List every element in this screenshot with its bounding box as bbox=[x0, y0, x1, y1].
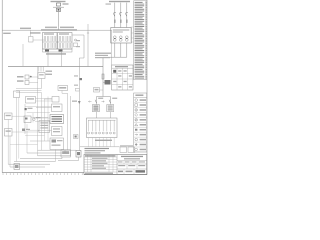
relay riser x48 bbox=[47, 97, 49, 142]
side tap arrow right bbox=[102, 101, 105, 103]
label text above switchgear right bbox=[60, 27, 74, 29]
wire bbox=[100, 89, 104, 91]
panel box P3 with gray bars bbox=[50, 115, 64, 124]
legend symbol 10 bbox=[135, 143, 138, 146]
riser from JB1 bbox=[16, 98, 18, 162]
disconnect switch blades bbox=[113, 12, 128, 16]
breaker CB-2 dark bbox=[59, 50, 63, 52]
sheet border right bbox=[146, 0, 148, 175]
schedule cell marks bbox=[118, 70, 121, 71]
legend symbol 4 bbox=[135, 113, 138, 116]
legend header text bbox=[135, 95, 143, 96]
main bus 480V bbox=[8, 65, 103, 67]
wire bbox=[79, 57, 84, 59]
transformer T1 enclosure bbox=[111, 28, 132, 44]
drawing number cells bbox=[123, 169, 125, 175]
relay contact cluster 1 dark dot bbox=[25, 108, 27, 110]
legend symbol 9 bbox=[135, 138, 138, 141]
side tap arrow left bbox=[89, 101, 92, 103]
schedule dark cell bbox=[113, 70, 116, 73]
auto transfer box bbox=[39, 121, 50, 133]
relay contact cluster 3 bbox=[22, 129, 25, 132]
riser x33 bbox=[32, 113, 34, 123]
cluster 1 label bbox=[28, 108, 33, 109]
notes text small bbox=[3, 33, 11, 34]
wire bbox=[36, 98, 53, 100]
title block sub cells row1 bbox=[123, 161, 125, 164]
legend symbol 2 bbox=[135, 104, 138, 106]
mcc branch drops bbox=[88, 120, 90, 131]
wire bbox=[12, 131, 39, 133]
revision row entries bbox=[92, 158, 108, 159]
wire bbox=[61, 157, 63, 159]
cluster 3 label bbox=[26, 129, 30, 130]
mcc label text bbox=[95, 140, 112, 141]
mcc feeder wire 1 bbox=[96, 97, 98, 105]
relay tap dark blob bbox=[80, 78, 82, 80]
terminal box TB1 bbox=[14, 164, 20, 170]
legend text bbox=[140, 109, 146, 111]
wire bbox=[35, 121, 50, 123]
wire incoming service drop bbox=[58, 12, 60, 31]
switchgear busbar hatching bbox=[44, 36, 70, 48]
switchgear lineup label bbox=[41, 29, 77, 30]
wire from divider to bus bbox=[22, 44, 24, 66]
secondary wires down bbox=[114, 43, 116, 57]
panel box P4 bbox=[52, 127, 63, 136]
bus label text bbox=[46, 53, 66, 55]
wire bbox=[30, 140, 50, 142]
label text above switchgear left bbox=[20, 28, 31, 30]
meter relay K2 bbox=[25, 81, 29, 85]
wire bbox=[38, 130, 52, 132]
wire bbox=[61, 91, 63, 94]
riser bbox=[26, 124, 28, 153]
wire starter1 to mcc bbox=[96, 112, 98, 118]
legend symbol 11 bbox=[135, 149, 138, 151]
disconnect blade feeder2 bbox=[109, 100, 110, 103]
wire bbox=[25, 106, 52, 108]
edge box E1 bbox=[5, 113, 13, 120]
legend text bbox=[140, 104, 146, 106]
stamp label text bbox=[120, 145, 133, 146]
junction device box bbox=[61, 150, 71, 157]
relay cluster vertical bbox=[24, 104, 26, 134]
switchgear bottom cable strip bbox=[43, 49, 73, 52]
disconnect blade feeder1 bbox=[95, 100, 96, 103]
wire bbox=[33, 39, 45, 41]
control riser 4 bbox=[70, 96, 72, 156]
fuse cutouts bbox=[114, 20, 127, 23]
wire bbox=[34, 117, 50, 119]
switchgear section titles bbox=[44, 33, 54, 34]
revision table rows bbox=[84, 156, 117, 158]
motor circles bbox=[88, 132, 90, 134]
title block frame bbox=[84, 155, 147, 175]
legend text bbox=[140, 144, 146, 146]
primary feeder wire 2 bbox=[120, 3, 122, 28]
potential transformer PT1 bbox=[57, 8, 61, 11]
bottom route wire 6 bbox=[8, 163, 50, 165]
riser from P5 bbox=[55, 150, 57, 162]
panel box P2 bbox=[52, 104, 63, 112]
wire bbox=[27, 112, 50, 114]
sheet border left bbox=[1, 0, 3, 173]
primary feeder wire 1 bbox=[114, 3, 116, 28]
title block sub cells row2 bbox=[126, 164, 128, 169]
legend symbol 7 bbox=[135, 129, 137, 131]
breaker CB-1 dark bbox=[45, 50, 49, 52]
control riser 3 bbox=[67, 93, 69, 150]
note text top bbox=[51, 1, 66, 2]
legend symbol 6 bbox=[135, 123, 138, 125]
wire bbox=[53, 6, 64, 8]
transformer winding symbols bbox=[113, 36, 116, 39]
legend text bbox=[140, 134, 146, 136]
equipment schedule table bbox=[112, 65, 133, 90]
legend text bbox=[140, 99, 146, 101]
utility meter M1 bbox=[57, 3, 61, 6]
panel note text bbox=[72, 101, 77, 102]
wire bbox=[58, 157, 79, 161]
feeder1 label bbox=[98, 98, 103, 99]
primary feeder wire 3 bbox=[126, 3, 128, 28]
transformer T1 label text bbox=[109, 1, 130, 2]
edge box E2 bbox=[5, 129, 13, 137]
sheet border bottom bbox=[2, 172, 84, 174]
riser from JB1 b bbox=[18, 98, 20, 159]
fuse FU5 bbox=[102, 74, 104, 79]
aux box bbox=[74, 43, 78, 47]
schedule header text bbox=[115, 66, 128, 67]
revision table columns bbox=[87, 155, 89, 173]
wire bbox=[41, 79, 43, 89]
control riser 2 bbox=[41, 93, 43, 151]
relay label texts bbox=[17, 76, 24, 78]
surge arrester SA1 bbox=[75, 39, 77, 41]
parts list right column divider bbox=[144, 1, 146, 80]
legend symbol 1 bbox=[135, 99, 138, 102]
feeder wire F3 bbox=[78, 58, 80, 151]
starter unit 2 with heater bars bbox=[107, 105, 114, 112]
wire bbox=[83, 35, 85, 58]
label text bbox=[63, 3, 69, 5]
device tag box bbox=[94, 88, 100, 93]
wire bbox=[31, 116, 48, 118]
legend symbol 8 bbox=[135, 134, 138, 136]
meter relay K1 bbox=[25, 75, 29, 79]
wire bbox=[64, 150, 66, 154]
mcc under-box feeder wires bbox=[88, 138, 90, 147]
schedule row lines bbox=[112, 73, 133, 75]
bottom route wire 5 bbox=[14, 160, 56, 162]
legend text bbox=[140, 149, 146, 151]
labeled box upper bbox=[26, 97, 36, 104]
wire drop left bbox=[30, 30, 32, 36]
switchgear internal divider bbox=[43, 41, 73, 43]
legend text bbox=[140, 119, 146, 121]
feeder label texts bbox=[74, 75, 78, 76]
junction box JB1 bbox=[14, 91, 20, 98]
mcc feeder wire 2 bbox=[110, 97, 112, 105]
wire bbox=[103, 81, 105, 83]
bottom route wire 7 bbox=[10, 166, 45, 168]
mcc feeder bus bbox=[97, 96, 111, 98]
ruler tick marks below bottom border bbox=[3, 173, 82, 175]
control wiring fan bbox=[16, 88, 42, 90]
feeder device box bbox=[76, 88, 80, 91]
revision header text bbox=[85, 155, 116, 156]
wire vertical right of switchgear bbox=[87, 24, 89, 66]
drawing number text bbox=[118, 171, 123, 173]
riser from E1 bbox=[7, 120, 9, 165]
small label near divider bbox=[76, 40, 80, 41]
riser from E2 bbox=[9, 136, 11, 167]
dimension bracket left of table bbox=[130, 27, 132, 42]
wire starter2 to mcc bbox=[110, 112, 112, 118]
bus tap drops bbox=[38, 66, 40, 71]
legend text bbox=[140, 124, 146, 126]
schedule column lines bbox=[116, 68, 118, 90]
wire lower left a bbox=[10, 144, 38, 146]
legend rows bbox=[134, 102, 147, 104]
indicator lamp bbox=[30, 76, 32, 78]
cable termination arrow bbox=[78, 101, 81, 104]
wire bbox=[29, 82, 38, 84]
wire bbox=[29, 76, 38, 78]
feeder riser wire bbox=[102, 57, 104, 96]
transformer nameplate text bbox=[113, 29, 130, 30]
approval stamp box 2 bbox=[128, 147, 135, 153]
legend symbol 5 bbox=[135, 119, 138, 122]
metering label text bbox=[46, 71, 53, 72]
feeder tag box bbox=[58, 86, 68, 91]
wire lower left b bbox=[25, 135, 45, 137]
secondary route wire bbox=[103, 56, 127, 58]
motor control center MCC-1 enclosure bbox=[87, 118, 118, 138]
parts list table frame bbox=[134, 1, 147, 80]
wire bbox=[12, 115, 25, 117]
cluster 2 label bbox=[36, 117, 41, 118]
zone divider line horizontal bbox=[2, 29, 111, 31]
legend text bbox=[140, 129, 146, 131]
relay riser x44 bbox=[44, 99, 46, 141]
note text block bbox=[95, 53, 111, 54]
wire bbox=[28, 129, 39, 131]
reference drawings separator bbox=[80, 146, 120, 148]
starter unit 1 with heater bars bbox=[93, 105, 100, 112]
panel box P1 bbox=[52, 97, 59, 103]
aux device bbox=[29, 37, 34, 43]
bottom route wire 3 bbox=[38, 155, 71, 157]
wire switchgear feeder A bbox=[47, 52, 49, 66]
bottom route wire 4 bbox=[20, 158, 62, 160]
sheet bottom edge under title block bbox=[84, 174, 147, 176]
feeder2 label bbox=[112, 98, 117, 99]
switchgear section SWGR-A bbox=[43, 33, 58, 50]
switchgear section SWGR-B bbox=[58, 33, 73, 50]
panel box P5 bbox=[50, 138, 64, 150]
company name text bbox=[121, 156, 143, 157]
relay box K5 bbox=[24, 116, 31, 123]
end device dark box bbox=[76, 151, 81, 158]
wire to right equipment bbox=[72, 34, 84, 36]
wire switchgear feeder B bbox=[61, 52, 63, 66]
current transformer CT5 dark bbox=[105, 80, 111, 85]
CT set on feeder bbox=[38, 73, 45, 79]
title block divider bbox=[116, 155, 118, 175]
parts list rows bbox=[135, 1, 143, 4]
control riser 1 bbox=[37, 66, 39, 155]
approval stamp box 1 bbox=[120, 147, 127, 153]
legend text bbox=[140, 114, 146, 116]
mcc internal bus bbox=[88, 119, 116, 121]
symbol legend table frame bbox=[134, 93, 147, 152]
feeder side device bbox=[74, 135, 79, 139]
wire bbox=[44, 98, 52, 100]
reference drawings text rows bbox=[85, 148, 110, 149]
bottom route wire 1 bbox=[38, 149, 77, 151]
wire bbox=[36, 107, 52, 109]
legend text bbox=[140, 139, 146, 141]
legend symbol 3 bbox=[135, 109, 138, 112]
meter circle bbox=[33, 118, 36, 121]
zone divider line vertical bbox=[111, 30, 113, 65]
bottom route wire 2 bbox=[27, 152, 65, 154]
